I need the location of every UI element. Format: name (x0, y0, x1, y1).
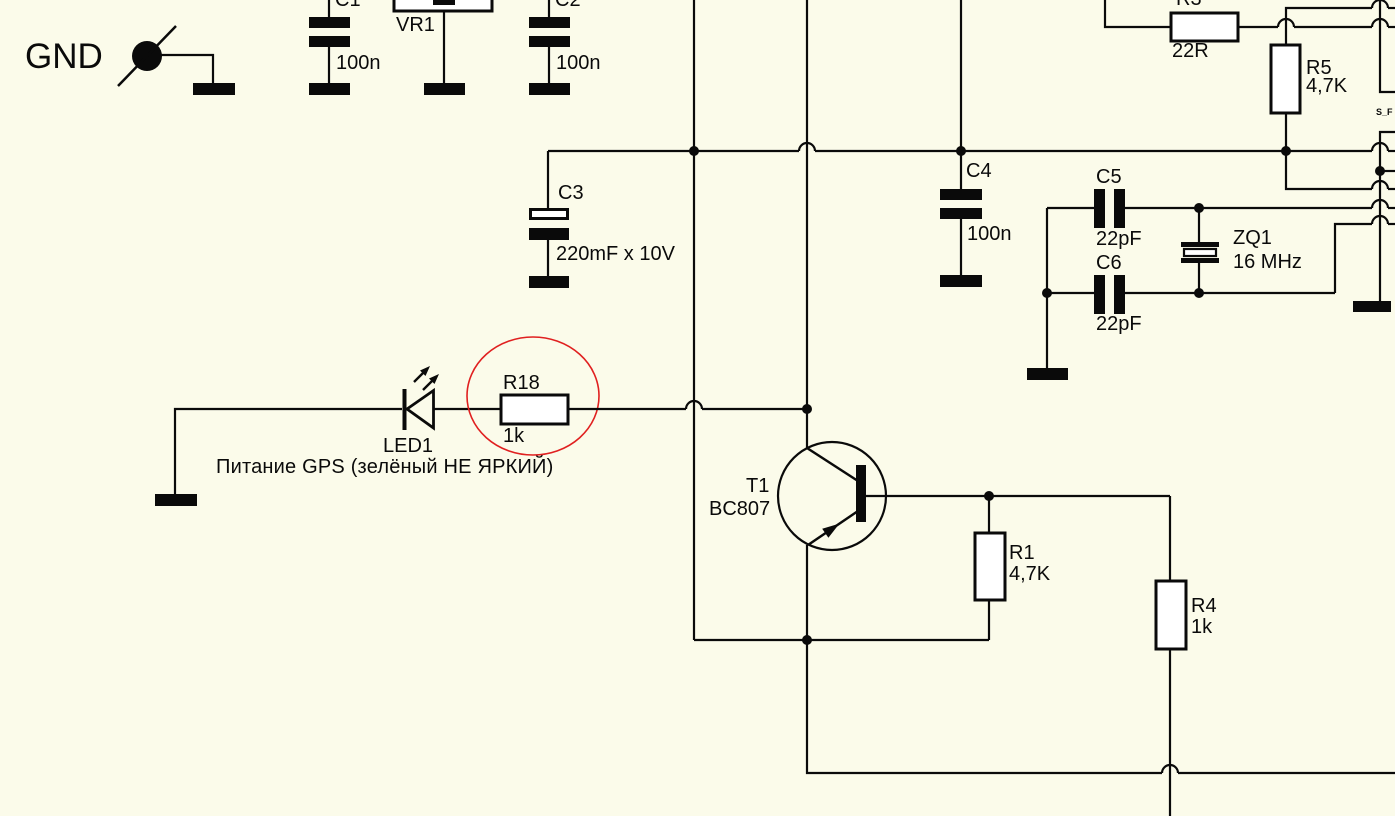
svg-text:R18: R18 (503, 372, 540, 394)
node junction C6 left (1042, 288, 1052, 298)
svg-text:22pF: 22pF (1096, 228, 1142, 250)
wire R3 right to edge (1238, 19, 1395, 27)
wire junction to right edge (1380, 170, 1395, 172)
svg-text:22pF: 22pF (1096, 313, 1142, 335)
svg-text:VR1: VR1 (396, 14, 435, 36)
svg-text:C2: C2 (555, 0, 581, 11)
resistor R18 (501, 372, 568, 447)
highlight ellipse around R18 (467, 337, 599, 455)
voltage regulator VR1 (394, 0, 492, 83)
ground under C1 (309, 83, 350, 95)
node junction base/R1 (984, 491, 994, 501)
capacitor C4 (940, 0, 1012, 275)
ground under C5/C6 (1027, 368, 1068, 380)
node GND junction circle (132, 41, 162, 71)
wire main rail y=151 (548, 143, 1395, 151)
resistor R1 (975, 496, 1051, 640)
svg-text:1k: 1k (1191, 616, 1213, 638)
node junction rail/C4 (956, 146, 966, 156)
node junction x1380 (1375, 166, 1385, 176)
svg-text:100n: 100n (336, 52, 381, 74)
node junction LED wire / x807 (802, 404, 812, 414)
capacitor C1 (309, 0, 381, 83)
wire LED to R18 (434, 408, 501, 410)
svg-text:1k: 1k (503, 425, 525, 447)
wire LED left (175, 409, 402, 494)
svg-text:R4: R4 (1191, 595, 1217, 617)
wire right connector pin1 (1380, 0, 1395, 92)
svg-text:C1: C1 (335, 0, 361, 11)
wire vertical net x=807 upper (806, 0, 808, 448)
node GND slash line (118, 26, 176, 86)
svg-text:ZQ1: ZQ1 (1233, 227, 1272, 249)
svg-text:22R: 22R (1172, 40, 1209, 62)
wire base of T1 to R4 (866, 495, 1170, 497)
wire vertical net x=694 (693, 0, 695, 640)
node junction rail/R5 (1281, 146, 1291, 156)
svg-text:4,7K: 4,7K (1009, 563, 1051, 585)
LED LED1 (383, 366, 439, 457)
wire C5/C6 left vertical to ground (1046, 208, 1048, 368)
capacitor C2 (529, 0, 601, 83)
svg-text:C3: C3 (558, 182, 584, 204)
svg-text:C6: C6 (1096, 252, 1122, 274)
ground under C4 (940, 275, 982, 287)
svg-text:4,7K: 4,7K (1306, 75, 1348, 97)
svg-text:LED1: LED1 (383, 435, 433, 457)
node junction rail/vert694 (689, 146, 699, 156)
capacitor C6 (1047, 252, 1335, 335)
svg-text:100n: 100n (556, 52, 601, 74)
svg-text:220mF x 10V: 220mF x 10V (556, 243, 676, 265)
svg-text:R1: R1 (1009, 542, 1035, 564)
svg-text:C5: C5 (1096, 166, 1122, 188)
svg-text:Питание GPS (зелёный НЕ ЯРКИЙ): Питание GPS (зелёный НЕ ЯРКИЙ) (216, 454, 553, 478)
wire vertical net x=807 lower (807, 545, 1395, 773)
node junction ZQ1 bottom (1194, 288, 1204, 298)
transistor T1 (709, 442, 886, 550)
resistor R3 (1105, 0, 1238, 62)
ground LED return (155, 494, 197, 506)
capacitor C3 (polarized) (529, 151, 676, 276)
wire bottom rail y=640 (694, 639, 989, 641)
capacitor C5 (1047, 166, 1395, 250)
svg-text:C4: C4 (966, 160, 992, 182)
svg-text:100n: 100n (967, 223, 1012, 245)
wire R5 net down to right edge (1286, 151, 1395, 189)
svg-text:BC807: BC807 (709, 498, 770, 520)
wire right connector pin2 down to ground (1380, 132, 1395, 301)
wire GND to ground (161, 55, 213, 84)
ground right connector (1353, 301, 1391, 312)
resistor R4 (1156, 496, 1217, 816)
svg-text:GND: GND (25, 37, 103, 76)
svg-text:T1: T1 (746, 475, 769, 497)
node junction ZQ1 top (1194, 203, 1204, 213)
svg-text:16 MHz: 16 MHz (1233, 251, 1302, 273)
svg-text:S_F: S_F (1376, 107, 1393, 117)
node junction emitter/rail (802, 635, 812, 645)
wire R18 to node (568, 401, 807, 409)
ground under C2 (529, 83, 570, 95)
ground under C3 (529, 276, 569, 288)
resistor R5 (1271, 0, 1395, 151)
ground (GND symbol) (193, 83, 235, 95)
wire C6 net to right edge (1335, 216, 1395, 293)
crystal ZQ1 (1181, 208, 1302, 293)
ground under VR1 (424, 83, 465, 95)
svg-text:R3: R3 (1176, 0, 1202, 10)
